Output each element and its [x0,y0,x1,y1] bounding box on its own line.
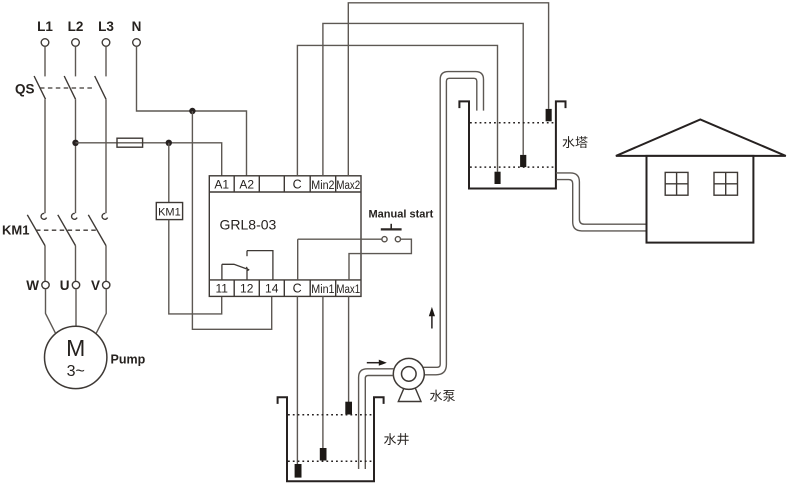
QS linkage dashed [40,87,94,89]
wire L1 QS to KM1 [44,99,46,213]
well water level dotted low [288,460,373,462]
label water well [384,433,409,445]
pipe well to pump line B [365,376,393,470]
terminal V [103,281,110,288]
pipe pump to tower line A [423,72,484,368]
wire L1 to QS [44,46,46,76]
electrode Max1 [345,402,352,415]
flow arrow to pump [367,362,380,364]
electrode Max2 [546,109,552,121]
window right [714,172,738,195]
wire KM1 to U [75,246,77,282]
terminal W [42,281,49,288]
pushbutton S1 [381,224,402,242]
svg-text:C: C [293,282,302,296]
KM1 linkage dashed [36,229,96,231]
svg-text:14: 14 [265,282,279,296]
svg-text:GRL8-03: GRL8-03 [220,217,277,233]
contactor KM1 pole 3 [88,213,107,245]
wire coil tap to KM1 coil [168,143,170,203]
switch QS pole 3 [95,76,106,99]
well tank [278,397,384,481]
svg-text:KM1: KM1 [2,223,29,238]
svg-text:L1: L1 [37,19,53,34]
fuse FU [117,138,143,147]
electrode Min1 [320,448,327,461]
well water level dotted high [288,414,373,416]
wire L3 QS to KM1 [105,99,107,213]
wire N to A2 [137,46,247,176]
contactor KM1 pole 2 [58,213,77,245]
svg-text:Max1: Max1 [336,283,360,296]
terminal L3 [102,39,110,47]
svg-text:Min2: Min2 [311,179,334,192]
svg-text:11: 11 [215,282,228,296]
water tower tank [459,101,565,188]
window left [665,172,688,195]
svg-text:M: M [66,335,85,361]
wire Min1 to well electrode [322,296,324,448]
switch QS pole 2 [64,76,75,99]
svg-text:12: 12 [240,282,254,296]
svg-text:L3: L3 [98,19,114,34]
svg-text:U: U [60,278,70,293]
pipe well to pump line A [359,369,395,469]
wire C top to tower electrode [297,45,497,175]
coil KM1 [156,203,182,220]
terminal U [72,281,79,288]
svg-text:V: V [91,278,100,293]
wire W to motor [46,289,56,334]
svg-text:Manual start: Manual start [369,209,434,221]
node L2-fuse tap [72,140,78,146]
svg-text:A1: A1 [214,178,229,192]
up-flow arrow [431,315,433,329]
wire pushbutton to Max1 [349,239,411,280]
electrode Min2 [520,155,526,167]
svg-text:N: N [132,19,142,34]
pipe tower to house line A [556,173,647,224]
wire L3 to QS [105,46,107,76]
wire Max2 to tower electrode [348,3,548,176]
terminal N [133,39,141,47]
pipe tower to house line B [556,180,647,231]
wire fuse line [76,143,222,176]
electrode C tower [495,172,501,184]
electrode C well [295,464,302,478]
contactor KM1 pole 1 [27,213,46,245]
svg-text:A2: A2 [239,178,254,192]
house roof [616,120,786,156]
wire C bottom to pushbutton [298,238,382,240]
motor M1 [44,326,106,388]
wire KM1 to W [44,246,46,282]
relay internal changeover contact [222,251,273,280]
wire KM1 to V [105,246,107,282]
svg-text:C: C [293,178,302,192]
svg-text:L2: L2 [68,19,84,34]
pump P1 [398,388,421,401]
wire L2 QS to KM1 [75,99,77,213]
svg-text:Max2: Max2 [336,179,360,192]
node fuse-KM1 coil tap [166,140,172,146]
terminal L1 [41,39,49,47]
wire L2 to QS [75,46,77,76]
svg-text:3~: 3~ [67,363,85,380]
tower water level dotted low [470,166,555,168]
house body [647,156,754,243]
pipe pump to tower line B [424,78,477,375]
svg-text:KM1: KM1 [158,207,181,219]
terminal L2 [72,39,80,47]
node N-14 tap [189,108,195,114]
svg-text:QS: QS [15,82,35,97]
wire KM1 coil to terminal 11 [169,220,222,314]
wire Max1 to well electrode [348,296,350,402]
wire C bottom drop [297,239,299,280]
wire V to motor [96,289,106,334]
tower water level dotted high [470,122,555,124]
label water tower [563,136,588,148]
relay U1 GRL8-03 body [209,176,361,297]
wire U to motor [75,289,77,327]
label water pump [430,390,455,402]
svg-text:Min1: Min1 [311,283,334,296]
wire Min2 to tower electrode [323,23,523,175]
switch QS pole 1 [34,76,45,99]
svg-text:W: W [26,278,39,293]
wire C bottom to well electrode [296,296,298,464]
wire N tap to terminal 14 [192,111,271,329]
svg-text:Pump: Pump [111,353,146,367]
